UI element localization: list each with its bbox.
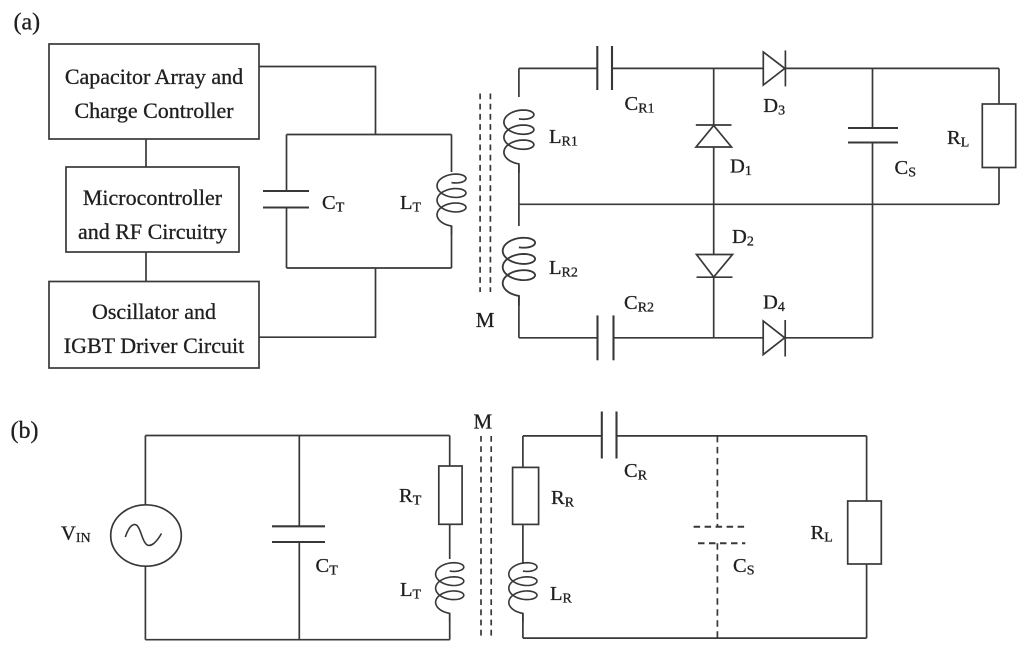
svg-text:(a): (a) [14,10,41,36]
wire RL branch upper (fig b) [866,436,868,501]
svg-text:LT: LT [400,579,422,603]
svg-text:RT: RT [399,485,422,509]
svg-text:IGBT Driver Circuit: IGBT Driver Circuit [64,333,244,358]
wire CS to bottom rail [872,204,874,337]
svg-text:CR: CR [624,460,648,484]
wire RR branch upper [522,436,524,468]
wire tank top [287,134,452,136]
wire RL to middle [998,168,1000,205]
svg-text:(b): (b) [11,418,39,444]
capacitor CS plates [848,127,898,129]
wire block2-block3 [145,252,147,282]
wire tank bottom [287,267,452,269]
diode D3 [763,52,785,85]
transformer core M dashed lines (fig a) [479,94,481,293]
wire CT branch upper (fig b) [298,436,300,527]
wire RT to LT [449,524,451,559]
wire RR to LR [522,524,524,564]
svg-text:CS: CS [733,555,754,579]
svg-text:Capacitor Array and: Capacitor Array and [65,64,243,89]
wire tank left upper [286,135,288,192]
wire top rail secondary left (fig b) [523,435,602,437]
inductor LR1 coil [504,110,534,173]
wire LT to bottom (fig b) [449,614,451,640]
wire LR1 to middle [518,165,520,204]
wire CS to middle [872,143,874,205]
wire top rail secondary right (fig b) [617,435,867,437]
wire block3 to tank bottom [259,268,376,337]
resistor RL (fig b) [848,501,882,564]
diode D2 [697,255,733,278]
wire bottom rail left [519,337,598,339]
svg-text:RL: RL [947,127,969,151]
block: Capacitor Array and Charge Controller [49,44,259,139]
resistor RL (fig a) [982,104,1015,168]
capacitor CR2 plates [596,315,598,360]
wire D1 branch upper [713,68,715,125]
wire RL branch (fig a) [998,68,1000,104]
svg-text:LT: LT [400,192,422,216]
diode D1 [696,124,732,126]
wire bottom rail primary (fig b) [145,639,449,641]
wire D2 branch upper [713,204,715,254]
inductor LT coil (fig b) [436,563,464,622]
svg-text:VIN: VIN [61,523,91,547]
svg-text:CS: CS [895,157,916,181]
svg-text:D1: D1 [730,156,752,180]
wire D2 to bottom [713,277,715,338]
wire secondary top (fig a) [519,67,597,69]
wire bottom rail mid [614,337,764,339]
wire top after D3 [785,67,999,69]
resistor RT [439,466,462,524]
svg-text:CR1: CR1 [625,93,655,117]
transformer core M dashed lines (fig b) [480,436,482,638]
wire CT branch lower (fig b) [298,542,300,640]
svg-text:and RF Circuitry: and RF Circuitry [78,219,227,244]
svg-text:CT: CT [322,192,345,216]
block: Oscillator and IGBT Driver Circuit [49,282,259,369]
capacitor CT plates [263,190,309,192]
svg-text:LR: LR [550,583,573,607]
svg-text:CR2: CR2 [624,292,654,316]
svg-text:LR2: LR2 [549,257,578,281]
inductor LT coil (fig a) [437,174,466,235]
source VIN circle [111,505,182,566]
wire block1-block2 [145,139,147,167]
wire D1 to middle [713,147,715,204]
wire top after CR1 [612,67,763,69]
svg-text:M: M [476,308,495,332]
svg-text:RL: RL [811,522,833,546]
wire CS branch upper [872,68,874,128]
wire LR2 to bottom [518,296,520,338]
wire secondary left upper (LR1 branch) [518,68,520,97]
wire tank right upper [451,135,453,173]
svg-text:D2: D2 [732,226,754,250]
svg-text:Charge Controller: Charge Controller [74,98,234,123]
capacitor CR plates (fig b) [601,412,603,459]
source sine wave [125,524,161,545]
capacitor CS dashed vertical lower (fig b) [716,543,718,638]
wire block1 to tank top [259,67,376,135]
wire tank right lower [451,226,453,268]
svg-text:Oscillator and: Oscillator and [92,299,216,324]
capacitor CS dashed vertical (fig b) [716,436,718,527]
diode D4 [763,321,785,355]
capacitor CT plates (fig b) [272,525,325,527]
wire bottom rail secondary (fig b) [523,637,867,639]
wire top rail primary (fig b) [145,435,449,437]
svg-text:Microcontroller: Microcontroller [83,185,223,210]
wire secondary left lower (LR2 branch) [518,204,520,226]
svg-text:RR: RR [551,487,575,511]
capacitor CS dashed plates (fig b) [694,526,746,528]
wire RL to bottom (fig b) [866,564,868,638]
block: Microcontroller and RF Circuitry [66,167,239,252]
svg-text:D3: D3 [763,95,785,119]
wire source top [144,436,146,505]
svg-text:LR1: LR1 [549,126,578,150]
capacitor CR1 plates [596,46,598,90]
wire bottom rail right [785,337,872,339]
wire middle rail [519,203,999,205]
wire source bottom [144,566,146,640]
inductor LR2 coil [503,238,535,306]
resistor RR [513,467,539,524]
svg-text:CT: CT [316,555,339,579]
wire tank left lower [286,208,288,269]
inductor LR coil (fig b) [509,563,537,622]
svg-text:D4: D4 [763,292,785,316]
svg-text:M: M [474,410,493,434]
wire RT branch upper [449,436,451,467]
wire LR to bottom (fig b) [522,614,524,639]
